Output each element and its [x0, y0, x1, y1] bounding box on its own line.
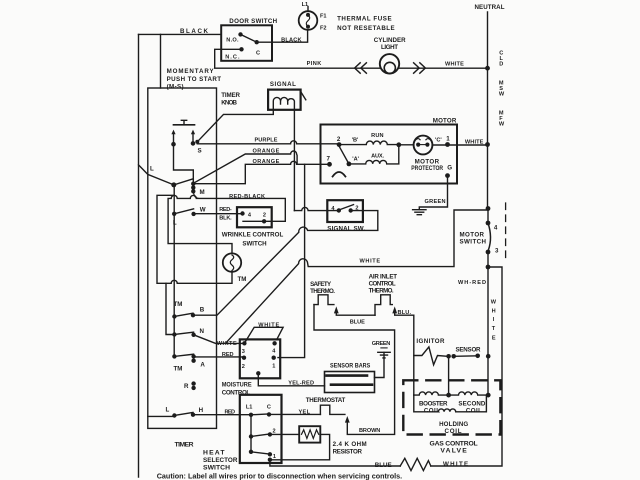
ignitor zigzag: [414, 347, 447, 365]
svg-text:N: N: [200, 328, 205, 335]
wire: blu drop to ignitor and valve: [413, 315, 415, 395]
svg-text:COIL: COIL: [466, 408, 482, 415]
sensor bars box: [325, 372, 375, 393]
wire: red-black TM loop with hops: [168, 195, 285, 253]
motor switch travel dashes: [505, 203, 507, 258]
svg-text:3: 3: [242, 349, 245, 355]
chevron right pair on white wire: [414, 63, 426, 73]
wire: lamp to neutral, white: [399, 67, 487, 69]
svg-text:L1: L1: [246, 405, 253, 411]
svg-text:AUX.: AUX.: [371, 154, 384, 160]
white bridge trapezoid 3-4: [244, 327, 283, 343]
svg-text:BLACK: BLACK: [281, 38, 301, 44]
wire: B wire diagonal to signal sw 2 loop, hop at 305: [193, 211, 378, 316]
resistor zigzag: [302, 430, 319, 439]
svg-text:MOTOR: MOTOR: [460, 231, 485, 238]
svg-text:ORANGE: ORANGE: [253, 148, 280, 154]
svg-text:2: 2: [263, 213, 266, 219]
svg-text:F1: F1: [320, 14, 327, 20]
motor terminal 2 and blade: [327, 142, 351, 167]
wire: moisture center to sensor bars, yel-red: [258, 373, 324, 386]
wire: G to green ground: [419, 176, 447, 210]
timer H contact: [172, 413, 195, 418]
svg-text:RED: RED: [222, 352, 234, 358]
svg-text:T: T: [492, 326, 496, 332]
timer box: [148, 88, 217, 428]
wrinkle control switch box: [237, 207, 272, 227]
wire: push contact elbow to M: [174, 144, 194, 181]
wire: resistor loop back to heat 1: [272, 434, 330, 459]
wire: door C to thermal fuse, black: [257, 31, 308, 42]
svg-text:WHITE: WHITE: [443, 461, 468, 468]
timer left jog to L junction: [139, 165, 174, 185]
svg-text:F2: F2: [320, 26, 327, 32]
wire: signal coil down leg x294: [293, 110, 295, 211]
node: BLACK label: [0, 0, 1, 1]
svg-text:B: B: [200, 306, 205, 313]
wire: W to wrinkle 4, red-blk: [194, 213, 243, 215]
svg-text:1: 1: [272, 364, 275, 370]
svg-text:H: H: [492, 309, 496, 315]
coil junction dots: [446, 393, 490, 398]
svg-text:M: M: [200, 189, 205, 196]
svg-text:THERMO.: THERMO.: [369, 287, 394, 294]
svg-text:CONTROL: CONTROL: [369, 280, 396, 287]
svg-text:WHITE: WHITE: [217, 341, 237, 347]
svg-text:L1: L1: [302, 2, 309, 8]
wire: purple S to motor 2 with hop at 294: [197, 141, 339, 144]
wire: orange1 M to motor via diagonal, hop at 294: [194, 151, 298, 183]
svg-text:2: 2: [355, 205, 358, 211]
wire: sensor to booster junction: [448, 356, 450, 395]
motor switch contacts on neutral: [486, 206, 491, 269]
svg-text:BLACK: BLACK: [180, 28, 209, 35]
wire: A to moisture 2, red: [194, 356, 244, 358]
svg-text:SIGNAL SW.: SIGNAL SW.: [327, 225, 365, 232]
ground symbol motor: [413, 210, 426, 215]
svg-text:RUN: RUN: [371, 133, 384, 139]
resistor 2.4k box: [299, 426, 320, 442]
svg-text:BLK.: BLK.: [219, 216, 232, 222]
wire: orange2 M to motor 7 with hop: [194, 161, 330, 183]
svg-text:L: L: [150, 166, 154, 173]
svg-text:BLUE: BLUE: [350, 320, 365, 326]
timer N contact: [172, 332, 196, 337]
svg-text:SWITCH: SWITCH: [242, 241, 267, 248]
neutral line: [487, 12, 489, 209]
wire: TM bottom return: [157, 195, 232, 283]
booster coil: [414, 392, 449, 395]
door switch blade: [241, 34, 257, 42]
timer R contact: [191, 381, 195, 390]
svg-text:SECOND: SECOND: [458, 400, 486, 407]
moisture terminals: [242, 341, 277, 375]
svg-text:HEAT: HEAT: [203, 449, 225, 456]
thermostat arrow: [345, 416, 350, 423]
svg-text:C: C: [267, 404, 271, 410]
wire: H to heat selector L1, red: [193, 414, 251, 416]
wire: left L1 black feeder: [138, 34, 140, 477]
svg-text:PINK: PINK: [307, 61, 322, 67]
svg-text:'A': 'A': [352, 156, 359, 162]
door switch contacts: [238, 32, 259, 51]
wire: signal sw 4 left with hop at 305 to x294 riser: [294, 207, 338, 210]
svg-text:TM: TM: [174, 366, 183, 373]
svg-text:L: L: [166, 407, 170, 414]
svg-text:YEL-RED: YEL-RED: [288, 380, 314, 386]
svg-text:WHITE: WHITE: [465, 139, 484, 145]
ground symbol green: [378, 352, 390, 358]
svg-text:PURPLE: PURPLE: [255, 137, 278, 143]
wire: heat C to thermostat, yel: [269, 413, 320, 415]
motor switch blade: [488, 223, 491, 250]
thermal fuse F1-F2: [299, 11, 318, 30]
svg-text:GREEN: GREEN: [372, 341, 391, 347]
svg-text:'C': 'C': [435, 137, 442, 143]
svg-text:BLU.: BLU.: [398, 310, 412, 316]
timer motor TM: [223, 253, 241, 271]
motor terminal 1 to neutral, white: [432, 144, 487, 146]
cylinder light lamp: [380, 54, 399, 73]
svg-text:TM: TM: [238, 276, 247, 283]
L bus vertical in timer: [173, 185, 175, 357]
M lower stub to red-black: [193, 191, 198, 198]
node: run/aux junction: [396, 142, 401, 147]
svg-text:W: W: [200, 207, 206, 214]
svg-text:IGNITOR: IGNITOR: [416, 338, 445, 345]
junction dots on neutral: [485, 66, 490, 147]
svg-text:SWITCH: SWITCH: [460, 239, 487, 246]
centrifugal actuator arc: [333, 172, 346, 177]
svg-text:1: 1: [273, 454, 276, 460]
gas control valve dashed box: [403, 380, 500, 434]
svg-text:H: H: [199, 407, 204, 414]
svg-text:W: W: [491, 300, 497, 306]
svg-text:CYLINDER: CYLINDER: [374, 37, 406, 44]
svg-text:A: A: [200, 362, 205, 369]
svg-text:TIMER: TIMER: [175, 442, 194, 449]
svg-text:GREEN: GREEN: [425, 199, 446, 205]
svg-text:SELECTOR: SELECTOR: [203, 457, 237, 464]
svg-text:2.4 K OHM: 2.4 K OHM: [333, 441, 367, 448]
wire: vertical bus x305 from orange2 to moisture 1: [278, 164, 305, 357]
svg-text:W: W: [499, 122, 505, 128]
wire: NC to pink run: [215, 49, 380, 68]
svg-text:RESISTOR: RESISTOR: [333, 449, 363, 456]
timer knob pointer line to signal: [197, 110, 273, 142]
timer M blade: [174, 179, 194, 185]
svg-text:'B': 'B': [352, 137, 359, 143]
motor protector: [414, 136, 433, 155]
svg-text:BOOSTER: BOOSTER: [419, 400, 448, 407]
wire: right riser wh-red to coils: [487, 267, 489, 395]
wire: drop from black wire to timer top: [160, 34, 162, 88]
svg-text:MOTOR: MOTOR: [433, 117, 457, 124]
wire: black wire from border to door switch: [139, 33, 222, 35]
svg-text:RED-BLACK: RED-BLACK: [229, 194, 265, 200]
svg-text:RED: RED: [225, 409, 236, 415]
svg-text:THERMAL FUSE: THERMAL FUSE: [337, 15, 392, 22]
svg-text:R: R: [184, 383, 189, 390]
push-to-start button bar: [174, 124, 195, 126]
svg-text:COIL: COIL: [424, 408, 440, 415]
run winding: [339, 141, 399, 145]
svg-text:NEUTRAL: NEUTRAL: [475, 4, 505, 11]
svg-text:WH-RED: WH-RED: [458, 280, 486, 286]
svg-text:WHITE: WHITE: [360, 259, 381, 265]
safety thermostat symbol: [314, 295, 334, 305]
signal buzzer box: [268, 90, 301, 110]
svg-text:L: L: [173, 220, 177, 227]
node M junction dots: [171, 182, 195, 194]
chevron left pair on pink wire: [355, 63, 367, 73]
svg-text:W: W: [499, 91, 505, 97]
svg-text:CONTROL: CONTROL: [222, 389, 251, 396]
wire: sensor bars to green ground: [375, 353, 385, 378]
sensor contacts: [446, 354, 490, 359]
svg-text:Caution: Label all wires prior: Caution: Label all wires prior to discon…: [157, 471, 403, 480]
svg-text:TIMER: TIMER: [221, 92, 240, 99]
moisture control box: [240, 339, 280, 378]
wire: heat 2 to resistor: [270, 433, 299, 435]
wire: N pivot feeder x166: [166, 283, 174, 334]
svg-text:2: 2: [337, 136, 341, 143]
svg-text:BLUE: BLUE: [375, 462, 392, 469]
svg-text:KNOB: KNOB: [221, 100, 237, 107]
signal switch box: [327, 200, 363, 222]
second coil: [449, 392, 489, 395]
svg-text:WHITE: WHITE: [445, 61, 464, 67]
svg-text:RED-: RED-: [219, 207, 232, 213]
svg-text:LIGHT: LIGHT: [381, 44, 398, 51]
wire: thermostat to safety thermo leg, brown: [314, 305, 395, 435]
timer B contact: [172, 313, 195, 319]
svg-text:WRINKLE CONTROL: WRINKLE CONTROL: [222, 232, 284, 239]
heat selector contacts: [249, 412, 272, 462]
svg-text:SAFETY: SAFETY: [310, 281, 332, 288]
svg-text:4: 4: [494, 225, 498, 232]
air inlet control thermostat symbol: [375, 295, 392, 315]
svg-text:D: D: [499, 61, 503, 67]
svg-text:THERMOSTAT: THERMOSTAT: [306, 397, 346, 404]
svg-text:NOT RESETABLE: NOT RESETABLE: [337, 25, 395, 32]
svg-text:COIL: COIL: [445, 428, 462, 435]
svg-text:N.O.: N.O.: [226, 38, 239, 44]
svg-text:(M-S): (M-S): [167, 84, 184, 91]
wire: bottom run blue/white: [270, 460, 400, 466]
svg-text:3: 3: [495, 248, 499, 255]
svg-text:SENSOR: SENSOR: [456, 347, 482, 354]
svg-text:7: 7: [327, 155, 331, 162]
svg-text:BROWN: BROWN: [359, 428, 380, 434]
svg-text:WHITE: WHITE: [258, 322, 279, 328]
heat selector switch box: [240, 395, 282, 463]
svg-text:GAS CONTROL: GAS CONTROL: [430, 440, 478, 447]
svg-text:SWITCH: SWITCH: [203, 464, 230, 471]
svg-text:PROTECTOR: PROTECTOR: [411, 165, 443, 172]
svg-text:SIGNAL: SIGNAL: [270, 81, 296, 88]
svg-text:MOMENTARY: MOMENTARY: [167, 68, 215, 75]
svg-text:G: G: [447, 165, 452, 172]
aux winding: [349, 145, 399, 164]
svg-text:ORANGE: ORANGE: [253, 159, 280, 165]
svg-text:1: 1: [446, 136, 450, 143]
svg-text:YEL: YEL: [299, 410, 311, 416]
svg-text:TM: TM: [174, 301, 183, 308]
thermostat bump: [320, 405, 345, 414]
svg-text:MOISTURE: MOISTURE: [222, 382, 252, 389]
svg-text:2: 2: [242, 364, 245, 370]
door switch DS box: [221, 25, 272, 61]
svg-text:N.C.: N.C.: [225, 55, 240, 61]
wire: N to moisture 3, white: [194, 335, 245, 344]
signal coil: [273, 97, 294, 109]
svg-text:SENSOR BARS: SENSOR BARS: [330, 363, 370, 370]
timer A contact: [172, 354, 196, 363]
wire: neutral continues through switch: [487, 252, 489, 267]
svg-text:AIR INLET: AIR INLET: [369, 273, 398, 280]
holding coil loop: [414, 395, 487, 412]
signal box corner tick: [301, 92, 306, 100]
svg-text:S: S: [198, 147, 202, 154]
W contact: [172, 212, 196, 216]
svg-text:PUSH TO START: PUSH TO START: [167, 76, 222, 83]
svg-text:THERMO.: THERMO.: [310, 288, 335, 295]
wire: bottom white to right riser: [431, 267, 502, 466]
sensor bar plates: [327, 376, 373, 385]
wire to protector: [399, 144, 414, 146]
push-to-start arrows: [173, 134, 175, 142]
motor box: [321, 125, 458, 184]
svg-text:E: E: [492, 336, 496, 342]
svg-text:VALVE: VALVE: [440, 448, 467, 455]
svg-text:C: C: [256, 51, 260, 57]
svg-text:2: 2: [273, 429, 276, 435]
wire: diagonal white to neutral line, hop at 305: [226, 210, 488, 343]
svg-text:DOOR SWITCH: DOOR SWITCH: [229, 18, 277, 25]
timer inner L bus: [148, 415, 175, 417]
heater zigzag bottom: [400, 458, 431, 470]
